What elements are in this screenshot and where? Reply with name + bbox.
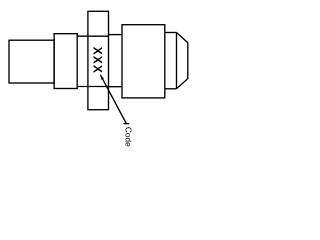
wire: neck top line left of flange (77, 35, 108, 37)
cap neck top line (165, 32, 177, 34)
wire: neck bottom line right of flange (109, 86, 123, 88)
leader line (100, 75, 126, 124)
wire: neck bottom line left of flange (77, 86, 108, 88)
svg-text:Code: Code (124, 127, 134, 147)
cap left face (176, 33, 178, 89)
svg-text:XXX: XXX (91, 47, 105, 74)
collar rectangle (54, 34, 77, 89)
flange rectangle (88, 11, 109, 109)
cap chamfered outline (177, 33, 188, 89)
cable rectangle (left plug body) (9, 40, 54, 83)
leader landing tick (123, 123, 129, 125)
cap neck bottom line (165, 88, 177, 90)
wire: neck top line right of flange (109, 34, 123, 36)
main body rectangle (122, 25, 165, 98)
arrowhead (100, 75, 104, 80)
